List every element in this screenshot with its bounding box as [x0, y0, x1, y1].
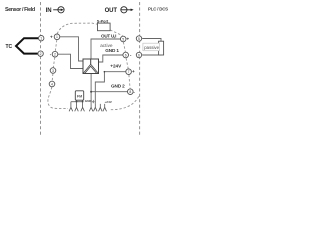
svg-text:TC: TC	[6, 44, 13, 50]
svg-text:6: 6	[138, 53, 140, 57]
svg-text:passive: passive	[144, 45, 159, 50]
svg-text:+: +	[132, 69, 135, 74]
svg-text:4: 4	[51, 82, 53, 86]
svg-text:GND: GND	[85, 99, 93, 103]
svg-text:7: 7	[128, 70, 130, 74]
svg-text:+: +	[127, 37, 130, 42]
svg-text:5: 5	[138, 37, 140, 41]
svg-text:+24V: +24V	[105, 100, 113, 104]
svg-text:IN: IN	[46, 8, 52, 14]
svg-text:2: 2	[54, 53, 56, 57]
svg-text:GND 2: GND 2	[111, 83, 125, 88]
svg-text:OUT U,I: OUT U,I	[101, 34, 116, 39]
svg-text:Sensor / Field: Sensor / Field	[5, 7, 35, 13]
svg-text:8: 8	[129, 90, 131, 94]
svg-text:PLC / DCS: PLC / DCS	[148, 7, 168, 12]
svg-text:1: 1	[40, 37, 42, 41]
svg-text:+24V: +24V	[110, 63, 122, 68]
svg-text:+: +	[50, 34, 53, 39]
svg-text:2: 2	[40, 52, 42, 56]
svg-text:GND 1: GND 1	[105, 48, 119, 53]
svg-text:FM: FM	[77, 94, 82, 98]
svg-text:5: 5	[122, 37, 124, 41]
svg-text:3: 3	[52, 69, 54, 73]
svg-text:1: 1	[56, 35, 58, 39]
svg-text:OUT: OUT	[105, 8, 118, 14]
svg-text:6: 6	[125, 53, 127, 57]
